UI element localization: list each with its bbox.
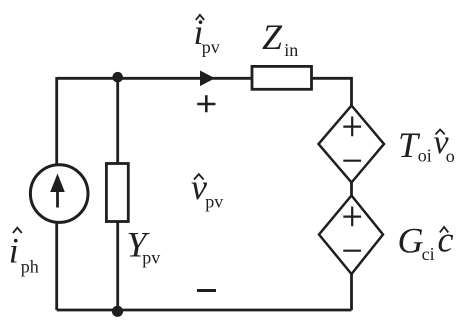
svg-text:c: c (438, 220, 454, 260)
svg-text:oi: oi (418, 145, 432, 165)
svg-text:in: in (284, 40, 298, 60)
svg-text:ci: ci (422, 244, 435, 264)
svg-text:pv: pv (202, 37, 220, 57)
svg-text:o: o (446, 146, 455, 166)
svg-text:i: i (9, 230, 19, 270)
svg-text:pv: pv (142, 247, 160, 267)
svg-text:pv: pv (205, 192, 223, 212)
svg-text:Z: Z (262, 17, 283, 57)
svg-text:ph: ph (21, 256, 39, 276)
svg-text:G: G (398, 221, 424, 261)
